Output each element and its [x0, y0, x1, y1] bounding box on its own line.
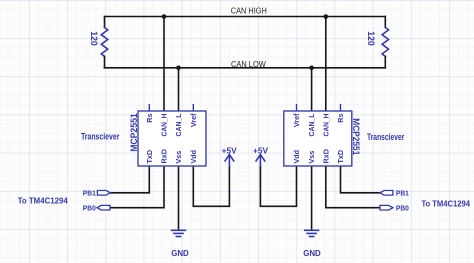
ground left: [171, 230, 186, 236]
junction CAN_L right on CAN LOW: [309, 66, 314, 71]
resistor R left 120: [104, 17, 106, 28]
svg-text:MCP2551: MCP2551: [351, 118, 361, 155]
ground right: [304, 230, 319, 236]
wire TxD right to PB1: [341, 166, 381, 193]
wire CAN_H right drop: [325, 17, 327, 112]
svg-text:Vss: Vss: [174, 151, 183, 164]
pin stub Vref left: [192, 105, 194, 111]
svg-text:Vref: Vref: [189, 113, 198, 127]
port PB1 right flag: [380, 191, 393, 196]
svg-text:+5V: +5V: [222, 146, 238, 155]
wire Vss left to GND: [178, 166, 180, 229]
svg-text:PB0: PB0: [396, 203, 409, 212]
IC U2 MCP2551 right body: [284, 111, 352, 166]
svg-text:To TM4C1294: To TM4C1294: [421, 199, 470, 209]
svg-text:TxD: TxD: [336, 150, 345, 164]
svg-text:PB0: PB0: [83, 203, 96, 212]
svg-text:Vdd: Vdd: [292, 150, 301, 164]
svg-text:CAN_L: CAN_L: [174, 113, 183, 137]
svg-text:Rs: Rs: [145, 114, 154, 123]
svg-text:Rs: Rs: [336, 114, 345, 123]
svg-text:MCP2551: MCP2551: [129, 113, 139, 152]
pin stub Rs left: [148, 105, 150, 111]
svg-text:CAN_H: CAN_H: [160, 114, 169, 137]
svg-text:PB1: PB1: [83, 188, 97, 197]
svg-text:CAN_H: CAN_H: [321, 114, 330, 137]
svg-text:TxD: TxD: [145, 150, 154, 164]
svg-text:RxD: RxD: [160, 149, 169, 163]
svg-text:CAN_L: CAN_L: [307, 113, 316, 137]
+5V arrow right: [256, 155, 266, 167]
svg-text:Transciever: Transciever: [81, 131, 120, 141]
svg-text:120: 120: [366, 31, 376, 46]
pin stub Rs right: [340, 105, 342, 111]
svg-text:+5V: +5V: [253, 146, 269, 155]
port PB1 left flag: [97, 191, 110, 196]
svg-text:Vdd: Vdd: [189, 150, 198, 164]
junction CAN_H left on CAN HIGH: [162, 14, 167, 19]
resistor R right 120: [384, 17, 386, 28]
wire Vdd right to +5V: [260, 166, 296, 206]
wire TxD left to PB1: [110, 166, 149, 193]
pin stub Vref right: [296, 105, 298, 111]
svg-text:PB1: PB1: [396, 188, 410, 197]
wire CAN HIGH bus: [105, 16, 386, 18]
wire CAN LOW bus: [105, 67, 386, 69]
port PB0 right flag: [380, 205, 393, 210]
svg-text:120: 120: [89, 31, 99, 46]
wire CAN_L right drop: [311, 68, 313, 111]
svg-text:To TM4C1294: To TM4C1294: [18, 196, 68, 206]
junction CAN_H right on CAN HIGH: [324, 14, 329, 19]
svg-text:RxD: RxD: [321, 149, 330, 163]
wire RxD left to PB0: [110, 166, 164, 208]
svg-text:CAN HIGH: CAN HIGH: [231, 6, 267, 16]
port PB0 left flag: [97, 205, 110, 210]
svg-text:Vss: Vss: [307, 151, 316, 164]
svg-text:GND: GND: [171, 249, 189, 258]
svg-text:GND: GND: [303, 249, 321, 258]
junction CAN_L left on CAN LOW: [176, 66, 181, 71]
wire RxD right to PB0: [326, 166, 380, 208]
svg-text:CAN LOW: CAN LOW: [231, 59, 266, 69]
wire CAN_H left drop: [163, 17, 165, 112]
wire Vdd left to +5V: [193, 166, 229, 206]
IC U1 MCP2551 left body: [138, 111, 206, 166]
+5V arrow left: [225, 155, 235, 167]
svg-text:Transciever: Transciever: [367, 132, 405, 142]
svg-text:Vref: Vref: [292, 113, 301, 127]
wire Vss right to GND: [311, 166, 313, 229]
wire CAN_L left drop: [178, 68, 180, 111]
